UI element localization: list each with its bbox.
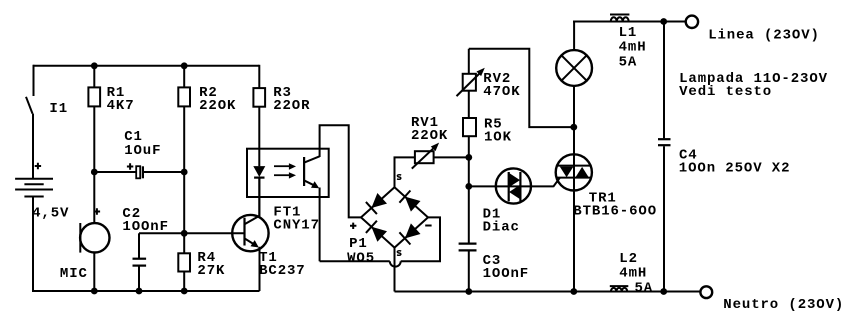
svg-text:4mH: 4mH — [619, 40, 647, 56]
svg-text:1OuF: 1OuF — [124, 143, 161, 159]
svg-text:1OOnF: 1OOnF — [122, 219, 169, 235]
svg-text:1OOnF: 1OOnF — [483, 266, 530, 282]
svg-text:27K: 27K — [197, 263, 225, 279]
svg-text:BC237: BC237 — [259, 263, 306, 279]
svg-text:L1: L1 — [619, 25, 638, 41]
svg-text:Neutro (23OV): Neutro (23OV) — [723, 297, 844, 313]
svg-text:I1: I1 — [49, 101, 68, 117]
svg-text:MIC: MIC — [60, 266, 88, 282]
svg-text:5A: 5A — [635, 280, 654, 296]
svg-text:4K7: 4K7 — [107, 98, 135, 114]
svg-text:1OK: 1OK — [484, 129, 512, 145]
svg-text:4,5V: 4,5V — [32, 206, 69, 222]
svg-text:CNY17: CNY17 — [273, 218, 320, 234]
svg-text:5A: 5A — [619, 54, 638, 70]
svg-text:Diac: Diac — [483, 219, 520, 235]
svg-text:1OOn 25OV X2: 1OOn 25OV X2 — [679, 161, 791, 177]
svg-text:22OK: 22OK — [199, 98, 236, 114]
svg-text:Vedi testo: Vedi testo — [679, 84, 772, 100]
svg-text:4mH: 4mH — [619, 265, 647, 281]
svg-text:BTB16-6OO: BTB16-6OO — [573, 204, 657, 220]
svg-text:22OK: 22OK — [411, 128, 448, 144]
svg-text:WO5: WO5 — [347, 251, 375, 267]
svg-text:22OR: 22OR — [273, 98, 310, 114]
svg-text:Linea (23OV): Linea (23OV) — [708, 27, 820, 43]
svg-text:47OK: 47OK — [483, 84, 520, 100]
